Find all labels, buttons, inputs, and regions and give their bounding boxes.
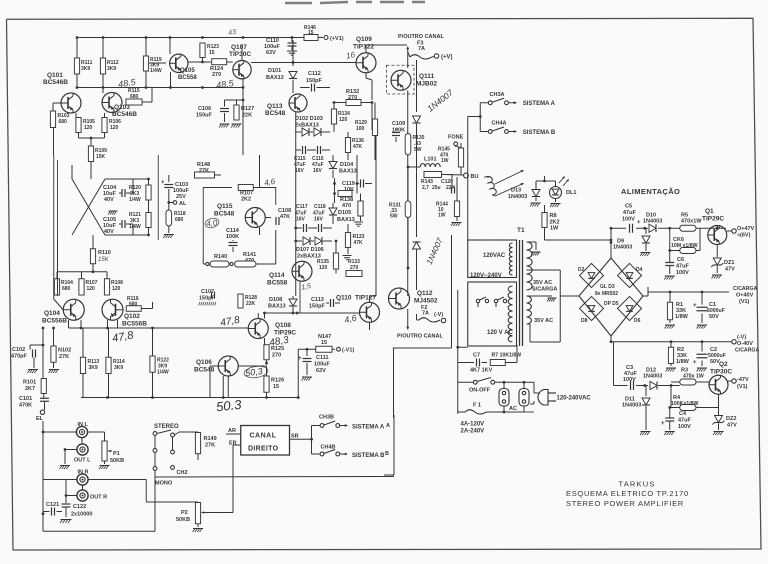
svg-text:C113: C113 xyxy=(311,297,324,303)
svg-text:Q107: Q107 xyxy=(231,44,247,51)
ground C106 R127 xyxy=(220,123,230,125)
switch stereo a xyxy=(153,432,157,436)
wire x260 column xyxy=(259,155,261,188)
svg-text:Q108: Q108 xyxy=(275,322,291,329)
svg-text:R8: R8 xyxy=(550,213,557,219)
svg-text:2K7: 2K7 xyxy=(25,386,35,392)
svg-text:TIP30C: TIP30C xyxy=(710,369,732,376)
svg-text:1N4003: 1N4003 xyxy=(613,245,632,251)
svg-text:L101: L101 xyxy=(424,157,437,163)
resistor R146 xyxy=(304,35,318,41)
svg-text:BAX13: BAX13 xyxy=(268,304,286,310)
svg-text:(-V): (-V) xyxy=(434,312,443,318)
wire OUT R to C122 xyxy=(65,494,68,497)
wire bridge top to C5 xyxy=(610,243,612,259)
svg-text:C101: C101 xyxy=(19,396,32,402)
svg-text:Q2: Q2 xyxy=(719,361,728,368)
relay arrows xyxy=(495,171,522,184)
svg-text:22K: 22K xyxy=(242,113,252,119)
selector contacts in box xyxy=(476,299,479,302)
svg-text:ON-OFF: ON-OFF xyxy=(469,388,491,394)
svg-text:C106: C106 xyxy=(198,106,211,112)
wire mono down xyxy=(154,470,156,477)
transistor Q104 xyxy=(63,299,84,320)
transistor Q111 dashed box xyxy=(387,65,415,94)
resistor R133a xyxy=(345,233,350,248)
wire FONE to R145 xyxy=(456,146,461,148)
svg-text:R140: R140 xyxy=(214,254,227,260)
wire bridge bottom xyxy=(610,336,612,342)
svg-text:Q1: Q1 xyxy=(705,208,714,215)
svg-text:-47V: -47V xyxy=(737,377,749,383)
svg-text:Q104: Q104 xyxy=(44,310,60,317)
svg-text:Q106: Q106 xyxy=(196,359,212,366)
resistor R106 xyxy=(104,113,106,118)
svg-text:FONE: FONE xyxy=(448,135,464,141)
svg-text:CH4B: CH4B xyxy=(321,445,336,451)
resistor R124 xyxy=(212,59,227,65)
svg-text:5W: 5W xyxy=(414,147,422,153)
svg-text:D6: D6 xyxy=(634,318,641,324)
svg-text:T1: T1 xyxy=(517,227,525,234)
svg-text:7A: 7A xyxy=(418,46,425,52)
resistor R127 xyxy=(236,100,238,105)
svg-text:50V: 50V xyxy=(709,314,719,320)
wire Q113 down column xyxy=(295,112,297,155)
svg-text:D105: D105 xyxy=(338,210,351,216)
svg-text:1/4W: 1/4W xyxy=(129,224,141,230)
svg-text:DZ2: DZ2 xyxy=(726,416,736,422)
resistor R103 xyxy=(52,103,54,111)
svg-text:(V1): (V1) xyxy=(737,384,748,390)
pot P2 xyxy=(146,501,198,503)
transistor Q105 xyxy=(170,54,188,72)
svg-text:Q105: Q105 xyxy=(180,68,195,74)
svg-text:4K7 1KV: 4K7 1KV xyxy=(470,368,493,374)
svg-text:1/4W: 1/4W xyxy=(150,68,162,74)
jack OUT R xyxy=(77,490,88,501)
resistor R137 xyxy=(358,201,363,216)
wire -V1 vert xyxy=(297,349,299,397)
svg-text:P/OUTRO CANAL: P/OUTRO CANAL xyxy=(398,34,444,40)
diode D col upper xyxy=(413,116,421,123)
wire mains junction xyxy=(456,346,459,349)
svg-text:27K: 27K xyxy=(205,443,215,449)
capacitor C109b symbol xyxy=(392,132,400,134)
terminal BU xyxy=(464,173,469,178)
wire R1 C1 top rail xyxy=(643,295,648,297)
svg-text:ALIMENTAÇÃO: ALIMENTAÇÃO xyxy=(621,187,680,196)
transistor Q107 xyxy=(233,60,251,78)
ground under C122 xyxy=(61,519,72,521)
svg-text:C117: C117 xyxy=(296,204,308,210)
svg-text:35V AC: 35V AC xyxy=(533,280,552,286)
svg-text:680: 680 xyxy=(62,286,71,292)
resistor R105 xyxy=(75,113,77,118)
svg-text:150pF: 150pF xyxy=(309,304,326,310)
wire cluster rails xyxy=(123,178,149,180)
svg-text:1N4003: 1N4003 xyxy=(622,403,641,409)
svg-text:150pF: 150pF xyxy=(306,78,323,84)
zener DZ1 xyxy=(716,245,718,258)
svg-text:27K: 27K xyxy=(59,354,69,360)
svg-text:BAX13: BAX13 xyxy=(337,217,355,223)
svg-text:16V: 16V xyxy=(295,168,305,174)
resistor R119 xyxy=(145,38,147,57)
transistor Q106 xyxy=(218,356,238,376)
svg-text:63V: 63V xyxy=(316,368,326,374)
svg-text:270: 270 xyxy=(272,353,281,359)
resistor R115 xyxy=(126,99,142,105)
svg-text:C122: C122 xyxy=(73,504,86,510)
svg-text:BC548: BC548 xyxy=(214,211,235,218)
ground R144 xyxy=(452,222,462,224)
svg-text:BC548: BC548 xyxy=(265,110,286,117)
bridge diode D6 square xyxy=(617,296,641,320)
resistor R149 xyxy=(195,433,200,454)
svg-text:+: + xyxy=(637,220,641,226)
svg-text:DIREITO: DIREITO xyxy=(248,446,279,453)
svg-text:R101: R101 xyxy=(23,380,36,386)
svg-text:15: 15 xyxy=(308,30,314,36)
svg-text:40V: 40V xyxy=(104,229,114,235)
wire Q106 base down xyxy=(209,366,211,398)
transformer core xyxy=(519,240,521,346)
wire Q109 emitter down xyxy=(365,73,367,78)
diode D101 xyxy=(292,40,294,66)
secondary wires grounds xyxy=(527,241,537,243)
svg-text:MJ4502: MJ4502 xyxy=(414,298,438,305)
wire +40V rail to edge xyxy=(702,291,729,293)
other channel box lines xyxy=(451,296,453,348)
svg-text:470pF: 470pF xyxy=(11,354,28,360)
resistor R107b xyxy=(79,279,84,295)
svg-text:25V: 25V xyxy=(176,194,186,200)
transistor Q102 xyxy=(102,299,123,320)
wire x416.5 diode column xyxy=(416,60,418,112)
svg-text:3K9: 3K9 xyxy=(114,365,123,371)
pot P1 xyxy=(88,431,105,433)
wire R103 column down xyxy=(53,128,55,156)
svg-text:120V--240V: 120V--240V xyxy=(470,273,502,279)
svg-text:O+40V: O+40V xyxy=(736,293,754,299)
switch stereo b xyxy=(153,449,157,453)
svg-text:C7: C7 xyxy=(473,353,480,359)
bridge rectifier outline xyxy=(579,258,643,336)
wire -V rail xyxy=(611,341,732,343)
svg-text:47V: 47V xyxy=(727,423,737,429)
ground mid cluster xyxy=(109,210,118,212)
box CANAL DIREITO xyxy=(241,426,290,456)
wire IN R to stereo switch xyxy=(88,479,146,481)
svg-text:B: B xyxy=(385,451,389,457)
svg-text:OUT R: OUT R xyxy=(90,495,107,501)
svg-text:470: 470 xyxy=(342,203,351,209)
transistor Q1 xyxy=(708,226,727,245)
wire Q114 to output rail xyxy=(299,282,301,314)
svg-text:C109: C109 xyxy=(392,121,405,127)
wire C102 junction xyxy=(42,340,44,379)
svg-text:120: 120 xyxy=(319,265,328,271)
svg-text:BC556B: BC556B xyxy=(42,318,67,325)
svg-text:CH4A: CH4A xyxy=(492,121,507,127)
wire +V1 top bus xyxy=(77,37,304,39)
svg-text:50.3: 50.3 xyxy=(215,397,242,415)
svg-text:GL D3: GL D3 xyxy=(600,284,615,290)
svg-text:680: 680 xyxy=(59,119,68,125)
svg-text:AL: AL xyxy=(179,201,187,207)
resistor R136 xyxy=(345,138,350,153)
svg-text:BAX13: BAX13 xyxy=(339,169,357,175)
arrow down other canal xyxy=(407,309,409,327)
svg-text:F 1: F 1 xyxy=(473,403,481,409)
svg-text:MJB02: MJB02 xyxy=(416,81,437,88)
wire R110 to bases xyxy=(57,271,107,273)
svg-text:16V: 16V xyxy=(296,217,306,223)
transistor Q112 xyxy=(389,288,410,309)
svg-text:C111: C111 xyxy=(316,355,329,361)
wire P2 wiper to ER xyxy=(207,512,233,514)
wire long y477 xyxy=(155,476,394,479)
svg-text:100V: 100V xyxy=(676,270,689,276)
svg-text:+: + xyxy=(661,421,665,427)
svg-text:50KB: 50KB xyxy=(110,458,124,464)
transistor Q2 xyxy=(709,375,728,394)
svg-text:47uF: 47uF xyxy=(623,210,636,216)
svg-text:SISTEMA A: SISTEMA A xyxy=(523,101,556,107)
wire arrow up x407 xyxy=(407,48,409,68)
relay coil xyxy=(486,176,496,195)
resistor R8 xyxy=(542,213,547,228)
svg-text:R110: R110 xyxy=(98,250,111,256)
diodes D107 D106 xyxy=(295,240,302,242)
wire Q115 box bottom close xyxy=(262,263,276,265)
svg-text:BC556B: BC556B xyxy=(122,321,147,328)
svg-text:SISTEMA A: SISTEMA A xyxy=(352,425,385,431)
svg-text:Q109: Q109 xyxy=(356,36,372,43)
svg-text:120: 120 xyxy=(110,125,119,131)
zener DZ2 xyxy=(715,416,723,423)
svg-text:BC546B: BC546B xyxy=(43,79,68,86)
svg-text:270: 270 xyxy=(212,72,221,78)
ground left of OUT L xyxy=(64,448,67,451)
svg-text:DZ1: DZ1 xyxy=(724,260,734,266)
svg-text:C121: C121 xyxy=(46,502,59,508)
svg-text:1N4003: 1N4003 xyxy=(643,219,662,225)
svg-text:(-V): (-V) xyxy=(737,335,746,341)
wire +47 rail xyxy=(611,227,626,229)
wire Q108 vert xyxy=(264,313,266,319)
terminal AL xyxy=(173,201,177,205)
svg-text:D8: D8 xyxy=(581,318,588,324)
wire col x357 xyxy=(356,155,358,194)
svg-text:5W: 5W xyxy=(390,214,398,220)
diode D col lower xyxy=(413,242,421,249)
svg-text:2,7: 2,7 xyxy=(422,185,429,191)
svg-text:680: 680 xyxy=(130,94,139,100)
terminal +V top xyxy=(434,54,438,58)
wire x407 down xyxy=(407,91,409,297)
svg-text:1/4W: 1/4W xyxy=(157,370,169,376)
selector pill 1 xyxy=(499,389,509,407)
resistor R143 C120 xyxy=(424,172,442,178)
svg-text:120: 120 xyxy=(339,117,348,123)
resistor R129 xyxy=(374,103,376,120)
svg-text:BC558: BC558 xyxy=(267,280,288,287)
svg-text:O+47V: O+47V xyxy=(737,226,755,232)
wire bottom rail y397.5 xyxy=(81,397,298,399)
wire Q1 collector up xyxy=(716,226,718,229)
wire Q104/Q102 to rail xyxy=(68,320,70,328)
svg-text:Q111: Q111 xyxy=(419,73,435,80)
transistor Q115 xyxy=(245,208,265,228)
svg-text:BAX13: BAX13 xyxy=(266,75,284,81)
terminal -47V xyxy=(728,380,732,382)
svg-text:R127: R127 xyxy=(241,106,254,112)
resistor R134 xyxy=(333,103,335,110)
svg-text:40V: 40V xyxy=(104,197,114,203)
svg-text:Q101: Q101 xyxy=(47,72,63,79)
svg-text:TIP29C: TIP29C xyxy=(702,216,724,223)
wire Q106 base from rail xyxy=(210,365,218,367)
transistor Q113 xyxy=(289,94,307,112)
svg-text:47uF: 47uF xyxy=(676,264,689,270)
svg-text:OUT L: OUT L xyxy=(74,458,91,464)
wire rail y328 xyxy=(69,327,249,329)
svg-text:P2: P2 xyxy=(181,510,188,516)
resistor R122 xyxy=(150,356,155,372)
svg-text:15: 15 xyxy=(209,50,215,56)
svg-text:TARKUS: TARKUS xyxy=(619,480,656,489)
resistor R123 xyxy=(202,42,204,44)
svg-text:≈(6V): ≈(6V) xyxy=(737,233,751,239)
transistor Q114 xyxy=(292,261,312,281)
Q115 block box xyxy=(203,188,232,256)
svg-text:+: + xyxy=(298,356,302,362)
resistor R111 xyxy=(76,38,78,59)
svg-text:TIP30C: TIP30C xyxy=(229,51,251,58)
wire DL1 D13 top xyxy=(536,180,556,182)
wire X top stub xyxy=(71,165,73,177)
svg-text:1/8W: 1/8W xyxy=(675,314,689,320)
svg-text:(+V1): (+V1) xyxy=(330,36,344,42)
ground R118 xyxy=(164,234,174,236)
svg-text:100V: 100V xyxy=(622,217,635,223)
svg-text:1N4003: 1N4003 xyxy=(643,374,662,380)
wire col x372 down xyxy=(371,103,373,131)
svg-text:47K: 47K xyxy=(353,144,363,150)
svg-text:R149: R149 xyxy=(204,436,217,442)
svg-text:C107: C107 xyxy=(201,289,214,295)
svg-text:C102: C102 xyxy=(12,347,25,353)
wire bridge right vertical xyxy=(647,287,649,292)
svg-text:100uF: 100uF xyxy=(314,362,331,368)
svg-text:3K9: 3K9 xyxy=(81,66,90,72)
bridge diode D2 square xyxy=(579,263,603,287)
svg-text:C/CARGA: C/CARGA xyxy=(735,348,759,354)
svg-text:A: A xyxy=(386,423,390,429)
svg-text:1/4W: 1/4W xyxy=(129,197,141,203)
svg-text:2x10000: 2x10000 xyxy=(71,512,92,518)
wire input left loop xyxy=(42,421,44,531)
svg-text:BC548: BC548 xyxy=(194,367,215,374)
terminal -V bottom xyxy=(441,318,445,322)
transistor Q108 xyxy=(248,319,268,339)
transistor Q103 xyxy=(102,93,122,113)
svg-text:100: 100 xyxy=(356,126,365,132)
wire Q2 base xyxy=(670,342,672,348)
jack OUT L xyxy=(77,444,88,455)
svg-text:(-V1): (-V1) xyxy=(342,348,354,354)
svg-text:D4: D4 xyxy=(636,267,643,273)
wire col x334.5 xyxy=(334,178,336,203)
transistor Q101 xyxy=(61,93,81,113)
ground C110 xyxy=(291,46,293,50)
resistor R110 xyxy=(92,235,94,249)
svg-text:15K: 15K xyxy=(96,154,106,160)
svg-text:(V1): (V1) xyxy=(739,299,750,305)
bridge diode D8 square xyxy=(579,296,603,320)
wire rail y313 xyxy=(265,312,360,314)
wire rail y87.5 xyxy=(77,87,243,89)
svg-text:CH3A: CH3A xyxy=(490,92,505,98)
svg-text:S/CARGA: S/CARGA xyxy=(532,287,557,293)
secondary coil upper xyxy=(527,242,533,290)
wire stereo pole to R149 xyxy=(174,432,179,435)
svg-text:4A-120V: 4A-120V xyxy=(461,422,485,428)
svg-text:120-240VAC: 120-240VAC xyxy=(557,396,592,402)
transistor Q110 xyxy=(360,302,380,322)
terminal EL xyxy=(40,410,44,414)
svg-text:1W: 1W xyxy=(550,226,559,232)
svg-text:C4: C4 xyxy=(679,411,687,417)
svg-text:R125: R125 xyxy=(271,346,284,352)
diode D105 xyxy=(329,208,337,215)
primary coil bumps xyxy=(509,243,512,275)
svg-text:N102: N102 xyxy=(58,348,71,354)
resistor R1 xyxy=(667,302,672,320)
ground C111 xyxy=(302,376,312,378)
svg-text:15: 15 xyxy=(321,340,327,346)
svg-text:P/OUTRO CANAL: P/OUTRO CANAL xyxy=(397,334,443,340)
svg-text:120VAC: 120VAC xyxy=(483,253,506,259)
ground near R137 xyxy=(354,221,363,223)
svg-text:150uF: 150uF xyxy=(196,113,213,119)
svg-text:47K: 47K xyxy=(280,214,290,220)
svg-text:680: 680 xyxy=(175,217,184,223)
bridge diode D4 square xyxy=(617,263,641,287)
svg-text:ESQUEMA ELETRICO TP.2170: ESQUEMA ELETRICO TP.2170 xyxy=(566,489,689,498)
svg-text:(+V): (+V) xyxy=(441,55,453,61)
wire left pair to Q104 xyxy=(53,240,55,299)
svg-text:1W: 1W xyxy=(441,158,449,164)
svg-text:C6: C6 xyxy=(677,257,684,263)
svg-text:100V: 100V xyxy=(678,424,691,430)
svg-text:C118: C118 xyxy=(314,204,326,210)
wire relay link vertical xyxy=(451,235,453,296)
resistor R108 xyxy=(104,279,109,295)
svg-text:47V: 47V xyxy=(725,267,735,273)
svg-text:2A-240V: 2A-240V xyxy=(461,429,485,435)
svg-text:150pF: 150pF xyxy=(199,296,216,302)
svg-text:AR: AR xyxy=(228,428,236,434)
scan artifact top text fragments xyxy=(285,2,425,3)
svg-text:8x MR502: 8x MR502 xyxy=(595,291,618,297)
svg-text:+: + xyxy=(161,180,165,186)
crossover X symbol xyxy=(72,179,105,235)
wire Q107 collector down xyxy=(242,88,244,101)
resistor R128 xyxy=(238,294,243,308)
